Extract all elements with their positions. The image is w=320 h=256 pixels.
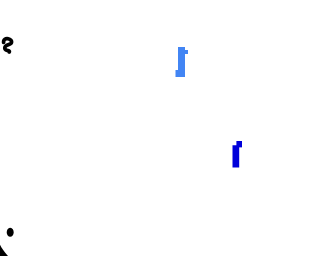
black corner mark (bottom-left pen stroke tip) <box>0 245 8 256</box>
dark blue stroke (vertical daub with upper-right step) <box>233 141 243 168</box>
black scribble (top-left pen doodle) <box>4 39 12 52</box>
white background <box>0 0 256 256</box>
black dot (lower-left pen blob) <box>7 228 14 237</box>
sketch canvas <box>0 0 256 256</box>
light blue stroke (vertical daub with right bump and left foot) <box>176 47 189 77</box>
